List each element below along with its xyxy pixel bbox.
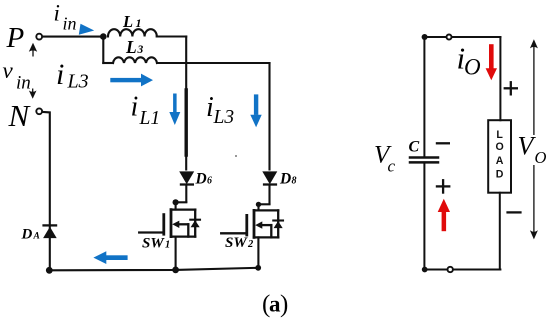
- svg-text:L1: L1: [139, 108, 161, 129]
- svg-text:i: i: [131, 92, 139, 123]
- svg-text:c: c: [388, 156, 396, 175]
- svg-text:v: v: [3, 58, 14, 83]
- svg-text:2: 2: [247, 239, 254, 250]
- svg-text:D: D: [195, 171, 207, 188]
- svg-text:D: D: [21, 227, 33, 243]
- svg-text:O: O: [495, 141, 503, 153]
- svg-text:i: i: [54, 1, 60, 26]
- svg-text:O: O: [464, 55, 481, 80]
- svg-text:in: in: [63, 13, 77, 33]
- svg-text:SW: SW: [142, 236, 165, 252]
- svg-text:3: 3: [137, 44, 144, 56]
- svg-text:1: 1: [136, 16, 142, 30]
- svg-text:A: A: [33, 232, 40, 242]
- svg-text:O: O: [535, 148, 547, 167]
- svg-text:D: D: [279, 171, 291, 188]
- svg-text:SW: SW: [225, 235, 248, 251]
- svg-text:6: 6: [207, 176, 212, 187]
- svg-text:P: P: [6, 22, 25, 54]
- svg-text:L3: L3: [213, 107, 235, 128]
- svg-text:L: L: [122, 12, 133, 31]
- svg-text:A: A: [496, 155, 504, 167]
- svg-text:in: in: [16, 73, 31, 94]
- svg-text:L: L: [496, 129, 503, 141]
- svg-text:8: 8: [292, 176, 297, 187]
- svg-text:N: N: [8, 98, 32, 133]
- svg-text:1: 1: [165, 240, 170, 251]
- svg-text:L3: L3: [67, 71, 89, 93]
- svg-text:C: C: [409, 139, 420, 156]
- svg-text:i: i: [56, 58, 64, 91]
- svg-text:D: D: [496, 169, 504, 181]
- svg-text:): ): [280, 291, 288, 318]
- svg-text:L: L: [125, 37, 137, 57]
